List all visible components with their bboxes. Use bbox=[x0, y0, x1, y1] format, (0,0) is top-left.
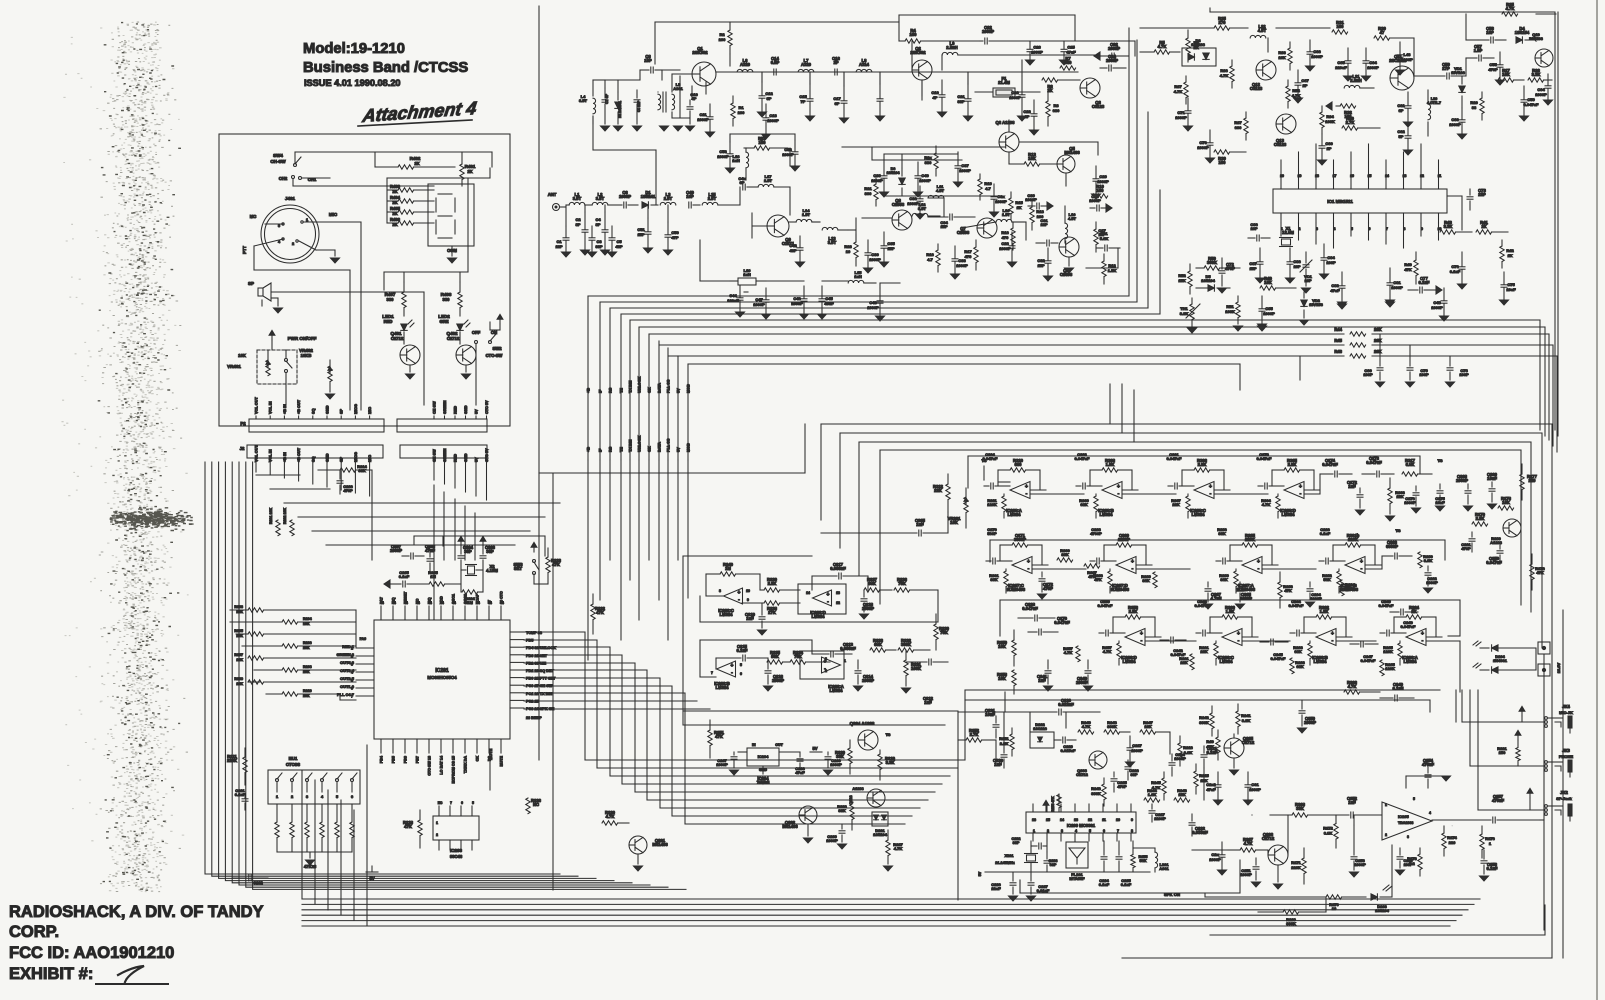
svg-text:10K: 10K bbox=[1502, 72, 1510, 77]
svg-text:1000P: 1000P bbox=[619, 194, 631, 199]
resistor R222 47K bbox=[591, 594, 606, 634]
resistor R253 47K bbox=[1043, 794, 1061, 812]
wire q9 bias bbox=[730, 134, 795, 166]
svg-text:-: - bbox=[1258, 566, 1260, 572]
svg-text:100P: 100P bbox=[1419, 372, 1429, 377]
capacitor C51 15P bbox=[637, 218, 652, 253]
svg-text:7: 7 bbox=[1117, 829, 1119, 833]
svg-text:4.7K: 4.7K bbox=[1064, 650, 1073, 655]
svg-text:1000P: 1000P bbox=[697, 117, 709, 122]
svg-text:47uF: 47uF bbox=[795, 770, 805, 775]
svg-text:1K: 1K bbox=[1016, 205, 1021, 210]
resistor R401 1K bbox=[460, 152, 492, 186]
capacitor C98 10P bbox=[1286, 248, 1302, 283]
svg-text:1000P: 1000P bbox=[995, 199, 1007, 204]
svg-text:3: 3 bbox=[1061, 829, 1063, 833]
capacitor C73 22P bbox=[1467, 188, 1487, 210]
svg-text:4P: 4P bbox=[933, 95, 938, 100]
resistor R46 20K on bus bbox=[668, 349, 1557, 452]
svg-text:470P: 470P bbox=[1488, 67, 1498, 72]
svg-text:GRE: GRE bbox=[439, 319, 448, 324]
capacitor C62 5P bbox=[1397, 124, 1412, 155]
resistor R236 75K bbox=[894, 577, 938, 592]
resistor R2 100 bbox=[719, 22, 733, 66]
resistor R227b 4.7K bbox=[886, 830, 904, 864]
wire mic to right bbox=[254, 222, 361, 410]
svg-text:10K: 10K bbox=[1278, 55, 1285, 60]
FCC overlay: FCC ID line bbox=[9, 944, 174, 962]
bus horizontal lower runs bbox=[678, 356, 1300, 390]
wire left chain bbox=[593, 70, 690, 118]
svg-text:10uF: 10uF bbox=[985, 712, 995, 717]
svg-text:1000P: 1000P bbox=[1431, 305, 1443, 310]
svg-text:1: 1 bbox=[1385, 803, 1387, 807]
svg-text:12.8M: 12.8M bbox=[1282, 230, 1294, 235]
svg-text:2: 2 bbox=[1047, 829, 1049, 833]
resistor R228 33K bbox=[837, 796, 854, 830]
wire row2 loop bbox=[990, 540, 1445, 562]
svg-text:1000P: 1000P bbox=[1076, 680, 1088, 685]
resistor R209 20K bbox=[234, 677, 263, 686]
wire IC202 cluster border bbox=[683, 556, 958, 725]
resistor R275 1 bbox=[1480, 826, 1496, 858]
label SPK ON bbox=[978, 871, 1180, 897]
svg-text:0.033uF: 0.033uF bbox=[1192, 830, 1208, 835]
nested bus loop wires left bbox=[205, 462, 686, 889]
transistor Q8 C2053 bbox=[892, 198, 912, 230]
svg-text:4: 4 bbox=[1075, 829, 1077, 833]
resistor R234 75K bbox=[790, 650, 830, 664]
capacitor C209b 1000P bbox=[825, 752, 842, 768]
wire ch-sw to resistors bbox=[293, 152, 492, 186]
svg-text:100K: 100K bbox=[911, 666, 921, 671]
svg-text:0P: 0P bbox=[835, 101, 840, 106]
svg-text:1: 1 bbox=[306, 218, 308, 222]
capacitor C215 0.1uF bbox=[716, 644, 768, 669]
capacitor C17 0P bbox=[833, 86, 848, 123]
svg-text:14: 14 bbox=[806, 591, 810, 595]
svg-text:43P: 43P bbox=[789, 248, 796, 253]
wire EU1 common bbox=[277, 852, 352, 858]
speaker SP bbox=[248, 281, 271, 306]
svg-text:68K: 68K bbox=[1296, 664, 1303, 669]
svg-text:1000P: 1000P bbox=[1209, 857, 1221, 862]
capacitor C229r 0.047uF bbox=[1028, 616, 1070, 635]
P2 pin labels left group bbox=[255, 397, 373, 419]
svg-text:6.8K: 6.8K bbox=[1324, 831, 1333, 836]
capacitor C272b 470P bbox=[1038, 572, 1054, 599]
svg-text:CTC SW 13: CTC SW 13 bbox=[428, 756, 432, 776]
capacitor C66t 1000P bbox=[1306, 40, 1324, 71]
wire audio internal bbox=[958, 712, 1252, 815]
capacitor C275 10uF bbox=[1435, 484, 1445, 505]
svg-text:120K: 120K bbox=[987, 502, 997, 507]
svg-text:5V: 5V bbox=[812, 746, 817, 751]
svg-text:100K: 100K bbox=[1325, 119, 1335, 124]
transistor Q5 BN1403 bbox=[1057, 146, 1080, 173]
svg-text:20K: 20K bbox=[303, 646, 310, 650]
resistor R26 3.3K bbox=[1528, 68, 1552, 82]
svg-text:68K: 68K bbox=[874, 642, 882, 647]
svg-text:EXHIBIT #:: EXHIBIT #: bbox=[9, 965, 93, 983]
transistor Q401 C2712 bbox=[390, 331, 420, 372]
svg-text:2.2K: 2.2K bbox=[1476, 516, 1485, 521]
svg-text:VR401: VR401 bbox=[227, 364, 241, 369]
svg-text:SET: SET bbox=[514, 566, 523, 571]
capacitor C91 1000P bbox=[1386, 268, 1404, 305]
ground Q205 bbox=[1230, 758, 1239, 775]
wire op-amp row2 loop bbox=[700, 640, 844, 679]
resistor R279 2.2K bbox=[1472, 512, 1488, 526]
resistor R317 6.8K bbox=[1402, 458, 1432, 476]
switch SW3 SET bbox=[513, 542, 548, 584]
svg-text:+: + bbox=[1237, 631, 1240, 637]
resistor R5 4.7K bbox=[1140, 40, 1180, 54]
svg-text:RED: RED bbox=[384, 319, 393, 324]
resistor R272 6.8K bbox=[1323, 815, 1338, 848]
ground mic bbox=[331, 250, 340, 263]
svg-text:1000P: 1000P bbox=[1449, 122, 1461, 127]
capacitor C224 1000P bbox=[1169, 752, 1186, 776]
diode D201 1S5104 bbox=[872, 812, 888, 837]
resistor R218 47K bbox=[403, 810, 422, 848]
filter F1 21.4M bbox=[975, 76, 1040, 97]
resistor R42 1K bbox=[1500, 240, 1515, 268]
op-amp IC207:B NJM3403 bbox=[1319, 527, 1381, 593]
svg-text:4.7K: 4.7K bbox=[894, 846, 903, 851]
capacitor C261 470P bbox=[1461, 532, 1475, 552]
svg-text:15V153: 15V153 bbox=[1309, 302, 1324, 307]
capacitor C60 1P bbox=[1318, 134, 1334, 165]
svg-text:2: 2 bbox=[292, 242, 294, 246]
svg-text:56K: 56K bbox=[1323, 577, 1330, 582]
resistor R239 2.2K bbox=[760, 577, 800, 592]
svg-text:R208: R208 bbox=[303, 665, 312, 669]
svg-text:300K: 300K bbox=[1207, 260, 1217, 265]
transistor Q13 C3123 bbox=[1274, 114, 1296, 147]
svg-text:1000P: 1000P bbox=[1025, 197, 1037, 202]
svg-text:6: 6 bbox=[461, 801, 463, 805]
capacitor C24 1000P bbox=[1100, 54, 1126, 71]
svg-text:-: - bbox=[1210, 491, 1212, 497]
FCC overlay: EXHIBIT line bbox=[9, 965, 93, 983]
capacitor C219 1uF bbox=[745, 603, 765, 628]
resistor R271 220K bbox=[1291, 848, 1306, 884]
capacitor C67 2P bbox=[1294, 70, 1310, 103]
ground Q401 bbox=[406, 374, 415, 379]
label TS row1b bbox=[1437, 458, 1442, 463]
capacitor C14 0.5P bbox=[771, 56, 780, 75]
DIP switch EU1 CTCSS bbox=[268, 756, 360, 804]
resistor R273 2.2 bbox=[1407, 848, 1422, 876]
svg-text:100: 100 bbox=[1097, 188, 1105, 193]
label PWR ON/OFF bbox=[269, 330, 317, 350]
switch SW2 CTC-SW bbox=[472, 314, 503, 405]
capacitor C253 1000P bbox=[1350, 825, 1367, 877]
svg-text:2.7K: 2.7K bbox=[970, 732, 979, 737]
ground Q206 bbox=[1274, 865, 1283, 889]
svg-text:-: - bbox=[1132, 566, 1134, 572]
svg-text:+: + bbox=[1131, 559, 1134, 565]
capacitor C203 30P bbox=[480, 536, 496, 570]
capacitor C46 1000P bbox=[791, 286, 808, 319]
svg-text:MIC: MIC bbox=[368, 407, 372, 414]
resistor R204 10K bbox=[282, 617, 312, 626]
svg-text:LM324: LM324 bbox=[1191, 512, 1205, 517]
svg-text:27K: 27K bbox=[768, 610, 776, 615]
svg-text:10K: 10K bbox=[303, 622, 310, 626]
svg-text:MIC: MIC bbox=[329, 212, 338, 217]
resistor R220 4.7K bbox=[602, 810, 629, 825]
capacitor C201z 1000P bbox=[1244, 772, 1262, 805]
capacitor C22 1000P bbox=[980, 25, 1135, 44]
svg-text:PHONE: PHONE bbox=[1559, 754, 1574, 759]
svg-text:3: 3 bbox=[278, 224, 280, 228]
svg-text:3.3K: 3.3K bbox=[1242, 718, 1251, 723]
svg-text:1000P: 1000P bbox=[767, 118, 779, 123]
svg-text:390K: 390K bbox=[1199, 720, 1209, 725]
svg-text:10P: 10P bbox=[1250, 226, 1257, 231]
svg-text:RESET: RESET bbox=[404, 591, 408, 604]
svg-text:PB5: PB5 bbox=[392, 756, 396, 763]
wire rf rail bbox=[672, 72, 1078, 92]
diode D203 1S5104 bbox=[1371, 845, 1392, 913]
svg-text:15P: 15P bbox=[637, 232, 644, 237]
svg-text:1000P: 1000P bbox=[919, 178, 931, 183]
svg-text:1000P: 1000P bbox=[1249, 787, 1261, 792]
svg-text:15K: 15K bbox=[1178, 792, 1185, 797]
svg-text:A361: A361 bbox=[673, 86, 683, 91]
page edge line bbox=[1596, 0, 1598, 1000]
inductor L20 coil bbox=[1427, 90, 1441, 136]
svg-text:330: 330 bbox=[387, 297, 395, 302]
svg-text:33P: 33P bbox=[595, 244, 602, 249]
capacitor C262b 1000P bbox=[1424, 566, 1439, 593]
svg-text:47uF: 47uF bbox=[1206, 787, 1216, 792]
svg-text:R45: R45 bbox=[1334, 338, 1342, 343]
wire jack main vertical bbox=[1544, 610, 1563, 958]
inductor L21 2.2uH bbox=[1344, 74, 1374, 88]
capacitor C43t 100P bbox=[1396, 42, 1414, 75]
svg-text:1000P: 1000P bbox=[1456, 478, 1468, 483]
ground R227b bbox=[884, 866, 893, 871]
transistor Q12 C3123 bbox=[1250, 60, 1276, 91]
svg-text:+: + bbox=[1421, 631, 1424, 637]
capacitor C220 0.022uF bbox=[1020, 698, 1100, 715]
resistor R18 100 bbox=[1030, 200, 1045, 230]
svg-text:100: 100 bbox=[1219, 160, 1227, 165]
svg-text:IRQ: IRQ bbox=[428, 597, 432, 604]
svg-text:100K: 100K bbox=[1225, 309, 1235, 314]
capacitor C204 30P bbox=[458, 536, 474, 570]
svg-text:390K: 390K bbox=[1091, 791, 1101, 796]
svg-text:OUT2 5: OUT2 5 bbox=[340, 676, 355, 681]
svg-text:47: 47 bbox=[1380, 30, 1385, 35]
capacitor C222 0.033uF bbox=[1189, 814, 1208, 836]
jack JK4 MIC-JK bbox=[1545, 704, 1573, 733]
svg-text:5V: 5V bbox=[475, 409, 479, 414]
label 5V out bbox=[810, 746, 822, 752]
svg-text:R253 47K: R253 47K bbox=[1051, 796, 1055, 812]
filter FL201 MTA55F bbox=[1066, 842, 1088, 881]
svg-text:10: 10 bbox=[846, 249, 851, 254]
transistor Q2 2SK302 bbox=[910, 46, 932, 80]
op-amp IC208:A LM324 bbox=[983, 452, 1046, 518]
resistor R265b 120K bbox=[1380, 660, 1396, 676]
svg-text:4.7K: 4.7K bbox=[1244, 841, 1253, 846]
svg-text:43uF: 43uF bbox=[824, 301, 834, 306]
wire L4 to ant rail bbox=[593, 116, 656, 205]
svg-text:LM324: LM324 bbox=[1122, 659, 1136, 664]
svg-text:R44: R44 bbox=[1334, 327, 1342, 332]
svg-text:100P: 100P bbox=[1326, 260, 1336, 265]
label TS row2 bbox=[1395, 528, 1400, 533]
J2 pin labels left bbox=[255, 445, 373, 462]
capacitor C48b 1000P bbox=[1431, 288, 1448, 321]
svg-text:6: 6 bbox=[740, 672, 742, 676]
capacitor C2 8P bbox=[575, 212, 589, 255]
svg-text:20K: 20K bbox=[1374, 327, 1382, 332]
capacitor C255b bbox=[1396, 848, 1413, 875]
svg-text:VOL OUT: VOL OUT bbox=[255, 397, 259, 414]
J2 pin labels right bbox=[433, 448, 490, 462]
svg-text:270: 270 bbox=[1219, 20, 1227, 25]
capacitor C59 0.047uF bbox=[1520, 86, 1540, 121]
svg-text:56K: 56K bbox=[1346, 586, 1353, 591]
svg-text:1.5K: 1.5K bbox=[1108, 268, 1117, 273]
capacitor C77b 0.1uF bbox=[1408, 276, 1442, 294]
svg-text:1000P: 1000P bbox=[826, 838, 838, 843]
svg-text:1000P: 1000P bbox=[1197, 145, 1209, 150]
resistor R206 20K bbox=[282, 641, 312, 650]
svg-text:1000P: 1000P bbox=[782, 152, 794, 157]
svg-text:4.7K: 4.7K bbox=[1262, 502, 1271, 507]
resistor R6 1K bbox=[1042, 78, 1080, 93]
svg-text:-: - bbox=[1332, 638, 1334, 644]
svg-text:LM324: LM324 bbox=[1403, 659, 1417, 664]
capacitor C254 470uF bbox=[1406, 758, 1451, 788]
capacitor C234 0.1uF bbox=[1099, 841, 1110, 887]
capacitor C230 1uF bbox=[993, 748, 1007, 768]
svg-text:78M05: 78M05 bbox=[757, 780, 770, 785]
capacitor C258 1000P bbox=[1209, 842, 1226, 875]
svg-text:IN: IN bbox=[752, 743, 756, 747]
resistor R44 20K on bus bbox=[649, 327, 1549, 440]
svg-text:SQ: SQ bbox=[311, 408, 315, 414]
svg-text:LM324: LM324 bbox=[1007, 512, 1021, 517]
svg-text:CH SW: CH SW bbox=[433, 401, 437, 414]
svg-text:1000P: 1000P bbox=[753, 302, 765, 307]
resistor R240z 47K bbox=[1206, 730, 1220, 760]
svg-text:75K: 75K bbox=[898, 581, 906, 586]
capacitor C227b 2200P bbox=[1149, 804, 1166, 822]
svg-text:4P: 4P bbox=[692, 96, 697, 101]
svg-text:20K: 20K bbox=[1374, 349, 1382, 354]
capacitor C44 100uF bbox=[727, 286, 748, 317]
svg-text:150: 150 bbox=[759, 140, 767, 145]
wire audio loop 2 bbox=[958, 692, 1020, 900]
svg-text:TDA2003: TDA2003 bbox=[1398, 821, 1413, 825]
resistor R232 390K bbox=[898, 638, 930, 652]
handwritten exhibit number bbox=[96, 966, 168, 984]
svg-text:1.5P: 1.5P bbox=[1474, 48, 1483, 53]
ground C209c bbox=[838, 844, 847, 849]
resistor R233 68K bbox=[870, 638, 896, 652]
svg-text:23 BEEP: 23 BEEP bbox=[526, 716, 542, 720]
svg-text:12: 12 bbox=[836, 601, 840, 605]
capacitor C26 1000P bbox=[1026, 41, 1044, 65]
resistor R263b 68K bbox=[1290, 658, 1306, 674]
capacitor C76 0.1uF bbox=[1450, 252, 1467, 289]
resistor R267 4.7K bbox=[1228, 837, 1268, 852]
inductor L11 4.5T bbox=[928, 184, 944, 198]
inductor L15 2.5T bbox=[702, 187, 740, 205]
resistor R246 390K bbox=[1091, 778, 1106, 806]
svg-text:IRQ: IRQ bbox=[392, 597, 396, 604]
svg-text:MOD: MOD bbox=[687, 443, 691, 452]
svg-text:5V: 5V bbox=[978, 871, 982, 876]
svg-text:LM324: LM324 bbox=[829, 688, 843, 693]
resistor R221 150 bbox=[1497, 730, 1521, 766]
jack JK2 SP-Jack bbox=[1478, 788, 1573, 821]
svg-text:GND: GND bbox=[464, 405, 468, 414]
capacitor C206 47uF bbox=[425, 544, 436, 572]
svg-text:47K: 47K bbox=[1404, 267, 1411, 272]
resistor R48 47K bbox=[1404, 252, 1418, 284]
svg-text:IC205: IC205 bbox=[1398, 814, 1409, 819]
svg-text:36 CTC: 36 CTC bbox=[500, 591, 504, 604]
svg-text:4.7K: 4.7K bbox=[1506, 6, 1515, 11]
capacitor C274 0.047uF bbox=[1320, 458, 1352, 477]
svg-text:+: + bbox=[827, 592, 830, 598]
svg-text:1000P: 1000P bbox=[871, 178, 883, 183]
svg-text:1M: 1M bbox=[467, 600, 473, 605]
bottom bus feeders bbox=[315, 745, 367, 926]
resistor R53 150 bbox=[744, 136, 788, 150]
svg-text:GREEN 2: GREEN 2 bbox=[336, 652, 354, 657]
wire bias rows bbox=[730, 134, 1000, 196]
svg-text:TS: TS bbox=[1437, 458, 1442, 463]
svg-text:1S6154: 1S6154 bbox=[1515, 30, 1530, 35]
svg-text:OFF: OFF bbox=[472, 330, 481, 335]
connector P2 bbox=[240, 419, 384, 432]
capacitor C45 43uF bbox=[818, 286, 835, 319]
capacitor C75 10uF bbox=[1500, 272, 1517, 305]
svg-text:PD3 21 SET: PD3 21 SET bbox=[526, 654, 548, 658]
svg-text:EU1: EU1 bbox=[289, 756, 298, 761]
svg-text:33: 33 bbox=[1472, 105, 1477, 110]
resistor R252 2.7K bbox=[958, 728, 996, 742]
svg-text:+B: +B bbox=[587, 388, 591, 393]
svg-text:1: 1 bbox=[1033, 829, 1035, 833]
capacitor C202 bbox=[232, 875, 268, 885]
svg-text:5: 5 bbox=[740, 663, 742, 667]
svg-text:C2712: C2712 bbox=[1242, 740, 1255, 745]
resistor R52 15K bbox=[1178, 264, 1192, 294]
svg-text:VDD: VDD bbox=[440, 596, 444, 604]
ground for display bbox=[448, 258, 457, 263]
svg-text:1K: 1K bbox=[1507, 253, 1512, 258]
resistor R274 220 bbox=[1442, 825, 1458, 856]
resistor R203 20K bbox=[234, 605, 263, 614]
svg-text:4: 4 bbox=[1429, 811, 1431, 815]
svg-text:BN(403: BN(403 bbox=[1529, 36, 1544, 41]
capacitor C229 0.015uF bbox=[1054, 737, 1076, 753]
svg-text:10P: 10P bbox=[1486, 30, 1494, 35]
svg-text:A319: A319 bbox=[801, 62, 812, 67]
svg-text:NJM3403: NJM3403 bbox=[1111, 587, 1130, 592]
svg-text:20K: 20K bbox=[236, 610, 243, 614]
